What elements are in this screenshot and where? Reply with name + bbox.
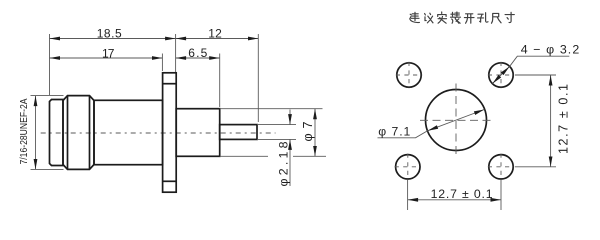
flange xyxy=(163,73,177,192)
big circle crosshair vertical xyxy=(455,84,457,157)
centerline xyxy=(41,132,276,134)
svg-text:18.5: 18.5 xyxy=(97,26,122,40)
big hole circle phi 7.1 xyxy=(426,90,487,151)
flange hole line top xyxy=(163,83,177,85)
char 议 xyxy=(425,13,433,23)
svg-text:12.7 ± 0.1: 12.7 ± 0.1 xyxy=(431,187,493,201)
vertical dimension 12.7 +/- 0.1 xyxy=(515,75,570,167)
leader to phi 7.1 label xyxy=(378,131,428,138)
svg-text:7/16-28UNEF-2A: 7/16-28UNEF-2A xyxy=(19,98,30,164)
thread chamfer line right xyxy=(89,96,91,170)
svg-text:φ2.18: φ2.18 xyxy=(277,141,291,186)
insulator diameter dimension phi 7 xyxy=(220,109,326,157)
char 装 xyxy=(451,12,461,23)
char 尺 xyxy=(492,13,502,23)
svg-text:12: 12 xyxy=(208,26,222,40)
char 孔 xyxy=(478,13,488,22)
leader to 4-phi3.2 label xyxy=(510,56,570,66)
svg-text:12.7 ± 0.1: 12.7 ± 0.1 xyxy=(556,84,570,154)
thread chamfer line left xyxy=(67,96,69,170)
pilot section (thread runout) xyxy=(50,100,64,166)
main body cylinder xyxy=(94,100,163,164)
char 建 xyxy=(410,12,420,22)
small hole circle top-right xyxy=(488,62,514,88)
dimension 12 xyxy=(176,26,259,122)
char 开 xyxy=(464,14,474,23)
big circle diameter arrow xyxy=(428,110,485,131)
pin diameter dimension phi 2.18 xyxy=(257,110,296,187)
svg-text:6.5: 6.5 xyxy=(188,46,207,60)
rear insulator cylinder xyxy=(176,109,220,157)
thread diameter dimension 7/16-28UNEF-2A xyxy=(19,96,63,170)
svg-text:4 − φ 3.2: 4 − φ 3.2 xyxy=(521,42,580,56)
title (hand-drawn CJK strokes): 建议安装开孔尺寸 xyxy=(410,12,515,23)
dimension 6.5 xyxy=(176,46,220,107)
dimension 17 xyxy=(50,46,163,71)
small hole circle bottom-right xyxy=(488,154,514,180)
big circle crosshair horizontal xyxy=(420,119,492,121)
svg-text:φ 7.1: φ 7.1 xyxy=(378,125,410,139)
small circle diameter arrow (top-right) xyxy=(492,66,509,83)
char 安 xyxy=(438,12,447,23)
horizontal dimension 12.7 +/- 0.1 xyxy=(408,179,501,210)
char 寸 xyxy=(505,12,514,22)
dimension 18.5 xyxy=(50,26,176,95)
center pin xyxy=(220,125,257,140)
small hole circle bottom-left xyxy=(395,154,421,180)
small hole circle top-left xyxy=(396,62,422,88)
svg-text:φ7: φ7 xyxy=(301,121,315,141)
svg-text:17: 17 xyxy=(102,46,115,60)
flange hole line bottom xyxy=(163,180,177,182)
thread section body xyxy=(63,96,94,170)
